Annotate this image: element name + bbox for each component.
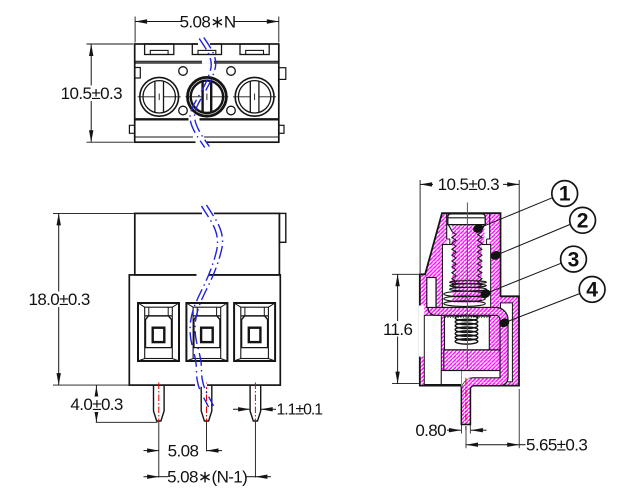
front view lower body <box>129 275 280 385</box>
svg-text:11.6: 11.6 <box>383 320 413 339</box>
front view of terminal block <box>28 205 323 487</box>
dimension 5.08*N line <box>134 17 136 43</box>
callout balloon 2 <box>570 207 596 233</box>
screw counterbore left gap <box>447 225 452 245</box>
leader line 4 <box>504 294 579 323</box>
screw thread right <box>478 232 483 288</box>
clamp yoke left strip (white) <box>427 278 436 308</box>
coil spring <box>455 315 478 320</box>
leader dot 4 <box>498 317 511 329</box>
screw 1 (top view) <box>140 77 179 116</box>
top notch inner 2 <box>198 50 216 54</box>
left lower tab <box>129 125 134 133</box>
wire entry window 2 <box>186 303 227 361</box>
svg-text:4: 4 <box>586 279 598 302</box>
pin centerline (section) <box>465 378 467 430</box>
small hole (183,110.5) <box>179 106 188 115</box>
under-floor gap right <box>462 371 501 378</box>
svg-text:5.08∗N: 5.08∗N <box>180 12 236 31</box>
left upper tab <box>135 68 141 79</box>
leader line 2 <box>496 225 570 256</box>
svg-text:5.08∗(N-1): 5.08∗(N-1) <box>167 468 247 487</box>
upper spring coils (compressed) <box>444 291 486 297</box>
front view right ear <box>279 213 285 242</box>
small hole (231,71.0) <box>227 67 236 76</box>
leader dot 3 <box>479 288 492 300</box>
top notch inner 3 <box>246 50 264 54</box>
svg-text:1: 1 <box>559 183 571 206</box>
svg-text:5.08: 5.08 <box>168 442 199 461</box>
top view internal line lower <box>135 136 279 138</box>
leader dot 1 <box>472 222 485 234</box>
screw centerline <box>466 203 468 368</box>
leader dot 2 <box>489 249 502 261</box>
top view internal line upper2 <box>135 62 279 64</box>
top view of terminal block <box>61 12 286 147</box>
screw head <box>448 214 485 225</box>
top notch 3 <box>240 44 269 55</box>
dimension 18.0±0.3 line <box>53 212 135 214</box>
dimension 10.5±0.3 line (top view) <box>87 43 134 45</box>
svg-text:4.0±0.3: 4.0±0.3 <box>70 395 123 414</box>
top view body outline <box>135 44 279 142</box>
right step line <box>501 295 520 297</box>
break line gaps (front view) <box>202 212 214 215</box>
break line gaps (top view) <box>198 43 210 46</box>
counterbore step lines <box>446 214 448 239</box>
svg-text:18.0±0.3: 18.0±0.3 <box>28 290 89 309</box>
screw counterbore right gap <box>484 225 489 245</box>
svg-text:10.5±0.3: 10.5±0.3 <box>438 175 499 194</box>
pin bend inner gap <box>462 378 473 389</box>
pin 2 (front view) <box>201 385 212 421</box>
top notch 1 <box>145 44 174 55</box>
small hole (231,110.5) <box>227 106 236 115</box>
clamp pressure plate <box>450 281 487 284</box>
break line (front view) <box>190 206 218 407</box>
svg-text:5.65±0.3: 5.65±0.3 <box>526 436 587 455</box>
pin 1 (front view) <box>154 385 165 421</box>
dimension 5.08 arrows <box>144 450 160 452</box>
clamp chamber cavity <box>442 245 490 308</box>
dimension 11.6 line <box>392 273 419 275</box>
callout balloon 4 <box>579 277 605 303</box>
dimension 0.80 arrows <box>447 429 461 431</box>
dimension 5.08*(N-1) arrows <box>144 476 160 478</box>
break line (top view) <box>190 39 211 148</box>
right lower tab <box>279 125 284 133</box>
dimension 1.1±0.1 arrows <box>233 408 250 410</box>
screw 3 (top view) <box>235 77 274 116</box>
screw thread left <box>452 232 456 288</box>
right channel cavity <box>501 303 513 382</box>
small hole (183,71.0) <box>179 67 188 76</box>
svg-text:3: 3 <box>568 248 580 271</box>
metal contact frame (hatched strip) <box>428 279 508 424</box>
pin 3 extension line <box>254 422 256 478</box>
leader line 3 <box>485 263 561 293</box>
under-floor gap left <box>441 371 461 385</box>
wire entry window 1 <box>138 303 179 361</box>
section housing body (hatched) <box>420 213 519 424</box>
dimension 10.5±0.3 line (section) <box>419 180 421 273</box>
svg-text:0.80: 0.80 <box>415 421 446 440</box>
chamber floor (hatched) <box>444 350 501 371</box>
front channel cavity <box>424 315 441 384</box>
pin 3 (front view) <box>250 385 261 421</box>
pin 1 extension line <box>158 422 160 478</box>
dimension 4.0±0.3 line <box>95 385 97 422</box>
front view upper body <box>135 213 280 275</box>
screw shaft (hatched) <box>452 231 481 303</box>
callout balloon 1 <box>552 181 578 207</box>
svg-text:10.5±0.3: 10.5±0.3 <box>61 84 122 103</box>
right upper tab <box>279 68 286 80</box>
screw 2 (top view) <box>188 77 227 116</box>
leader line 1 <box>478 198 552 229</box>
svg-text:2: 2 <box>577 210 589 233</box>
svg-text:1.1±0.1: 1.1±0.1 <box>277 402 324 419</box>
top view internal line upper <box>135 60 279 62</box>
callout balloon 3 <box>561 246 587 272</box>
top notch 2 <box>192 44 221 55</box>
section view of terminal block <box>383 175 605 455</box>
pin 2 extension line <box>206 422 208 452</box>
top view internal line thick <box>135 118 279 120</box>
wire grip serration <box>444 315 491 317</box>
left wall window <box>419 306 424 357</box>
wire entry window 3 <box>234 303 275 361</box>
spring chamber cavity <box>445 315 490 350</box>
dimension 5.65±0.3 line <box>465 426 467 448</box>
top notch inner 1 <box>150 50 168 54</box>
